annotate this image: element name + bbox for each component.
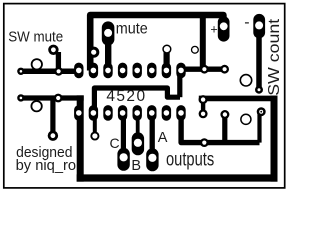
wire pin7 top stem (164, 51, 170, 65)
IC U1 pin 2 pad (89, 105, 98, 121)
wire up branch mid (222, 115, 227, 143)
via ring pin10 top (163, 45, 171, 53)
wire mid-right horizontal (181, 66, 226, 71)
via ring left top (32, 59, 42, 69)
IC U1 pin 14 pad (103, 63, 112, 79)
via ring right lower (241, 114, 251, 124)
wire minus stem (256, 32, 262, 90)
IC U1 pin 16 pad (74, 63, 83, 79)
label mute (116, 21, 148, 38)
IC U1 pin 15 pad (89, 63, 98, 79)
pad left bottom rail end (17, 94, 24, 101)
pad output A (146, 148, 158, 171)
label 4520 (106, 88, 146, 105)
IC U1 pin 8 pad (176, 105, 185, 121)
svg-text:C: C (110, 135, 120, 151)
IC U1 pin 11 pad (147, 63, 156, 79)
via ring plus drop (192, 46, 199, 53)
label by niq_ro (16, 158, 77, 174)
wire left power vertical (77, 95, 84, 181)
node left bottom rail junction (54, 94, 63, 103)
pad mid-right end (220, 65, 229, 74)
wire right top rail (199, 96, 278, 102)
board outline frame (4, 4, 285, 188)
wire SW-mute stem (56, 52, 61, 71)
IC U1 pin 12 pad (133, 63, 142, 79)
svg-text:mute: mute (116, 21, 148, 38)
IC U1 pin 4 pad (118, 105, 127, 121)
pad output C (117, 148, 129, 171)
via ring pin2 bottom (91, 132, 98, 139)
pad left mid (48, 131, 58, 141)
IC U1 pin 3 pad (103, 105, 112, 121)
svg-text:by niq_ro: by niq_ro (16, 158, 77, 174)
svg-text:A: A (158, 130, 168, 146)
node bottom bus junction (200, 138, 209, 147)
wire plus drop to node (200, 18, 206, 69)
IC U1 pin 9 pad (176, 63, 185, 79)
pad right branch top (257, 107, 266, 116)
pad minus supply (253, 14, 265, 39)
wire output B stem (136, 118, 140, 136)
wire pad pair link (201, 100, 205, 114)
svg-text:outputs: outputs (166, 149, 214, 171)
IC U1 pin 5 pad (133, 105, 142, 121)
wire pin8 bottom bus (181, 118, 259, 143)
label SW count (rotated) (266, 18, 283, 96)
wire up branch right (257, 112, 261, 143)
wire right power vertical (271, 96, 278, 182)
pad top bus left (88, 47, 99, 58)
svg-text:+: + (210, 23, 217, 37)
pad below right rail (199, 109, 208, 118)
wire output C stem (121, 118, 126, 152)
pad plus supply (218, 16, 230, 41)
wire bottom power bar (77, 174, 278, 181)
IC U1 pin 6 pad (147, 105, 156, 121)
pad left top rail end (17, 68, 24, 75)
wire pin8 top stem (177, 72, 182, 97)
svg-text:SW count: SW count (266, 18, 283, 96)
svg-text:4520: 4520 (106, 88, 146, 105)
pad mid branch top (220, 110, 229, 119)
pad SW mute switch (48, 45, 58, 55)
wire pin2 bottom stem (93, 119, 97, 132)
label A (158, 130, 168, 146)
wire left top rail (21, 69, 79, 75)
IC U1 pin 10 pad (162, 63, 171, 79)
node left top rail junction (54, 67, 63, 76)
wire output A stem (150, 118, 155, 152)
pad mute (large oval) (102, 21, 115, 45)
IC U1 pin 1 pad (74, 105, 83, 121)
pad output B (132, 132, 144, 155)
label outputs (166, 149, 214, 171)
label SW mute (8, 29, 63, 46)
label designed (16, 145, 72, 161)
svg-text:SW mute: SW mute (8, 29, 63, 46)
label minus (244, 14, 249, 31)
wire mute pad stem (105, 42, 111, 67)
via ring left bottom (31, 101, 41, 111)
IC U1 pin 7 pad (162, 105, 171, 121)
pad right rail end (199, 95, 208, 104)
pad minus stem end (255, 86, 263, 94)
svg-text:-: - (244, 14, 249, 31)
wire left bottom rail (21, 95, 84, 100)
label B (131, 158, 141, 174)
label C (110, 135, 120, 151)
wire top bus (mute net) (90, 15, 223, 71)
via ring right upper (240, 75, 251, 86)
node plus drop junction (200, 65, 209, 74)
svg-text:B: B (131, 158, 141, 174)
wire 4520 box trace (94, 88, 180, 108)
IC U1 pin 13 pad (118, 63, 127, 79)
label plus (210, 23, 217, 37)
wire left mid stem (50, 99, 55, 136)
